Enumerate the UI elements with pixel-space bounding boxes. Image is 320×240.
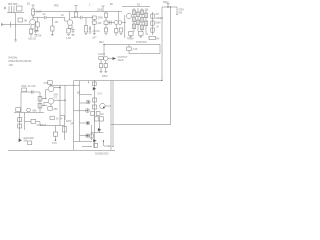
ground bbox=[140, 37, 143, 38]
tube V4 oscillator bbox=[104, 56, 108, 60]
wire cathode V2B bbox=[115, 25, 117, 29]
supply arrow B+ bbox=[102, 6, 105, 12]
ground bbox=[104, 72, 107, 73]
wire plate V6 bbox=[54, 99, 65, 101]
resistor R16 bbox=[132, 10, 135, 15]
wire col 1 bbox=[133, 8, 135, 32]
resistor R6 volume bbox=[51, 18, 53, 27]
wire plate V1A bbox=[32, 15, 34, 19]
bottom border wire bbox=[8, 149, 115, 151]
wire bbox=[74, 103, 87, 111]
svg-text:6.3V: 6.3V bbox=[52, 142, 57, 145]
wire bbox=[105, 68, 107, 72]
supply arrow B+ bbox=[32, 5, 35, 9]
diode D2 bbox=[93, 87, 96, 91]
text block notes bbox=[9, 56, 32, 67]
capacitor C7 bbox=[95, 117, 99, 121]
resistor R52 cathode bbox=[50, 104, 52, 107]
wire cathode V1A bbox=[31, 24, 35, 29]
resistor R25 bbox=[144, 21, 147, 26]
svg-text:270K: 270K bbox=[36, 36, 42, 38]
resistor R49 bbox=[151, 21, 154, 25]
ground bbox=[34, 35, 37, 36]
wire stubs bbox=[128, 45, 130, 54]
wire plate to rail bbox=[117, 12, 119, 21]
ground bbox=[120, 34, 123, 35]
svg-text:250K: 250K bbox=[98, 18, 104, 20]
svg-text:.02: .02 bbox=[145, 34, 149, 36]
wire bbox=[55, 126, 57, 132]
resistor R32 bbox=[22, 88, 27, 92]
wire reverb return bbox=[129, 53, 160, 55]
resistor R40 bbox=[90, 134, 94, 138]
svg-text:100: 100 bbox=[9, 63, 14, 67]
svg-text:.02: .02 bbox=[156, 27, 160, 29]
svg-text:GT: GT bbox=[54, 97, 58, 100]
svg-text:8Ω: 8Ω bbox=[77, 92, 80, 95]
lower wire bbox=[14, 112, 44, 114]
resistor R28 bbox=[127, 47, 132, 50]
ground bbox=[130, 37, 133, 38]
wire input bbox=[1, 24, 30, 26]
tube V3 bbox=[126, 13, 131, 18]
diode D1 bbox=[113, 57, 117, 60]
resistor R38 bbox=[92, 98, 96, 102]
wire to grids bbox=[42, 99, 47, 106]
svg-text:JACK: JACK bbox=[118, 59, 125, 62]
resistor R36 screen bbox=[48, 81, 52, 85]
wire cathode V1B bbox=[69, 25, 73, 29]
svg-text:5Y3: 5Y3 bbox=[98, 93, 103, 96]
svg-text:PRE: PRE bbox=[54, 6, 59, 8]
resistor R46 bbox=[53, 132, 57, 136]
resistor R37 bbox=[92, 82, 96, 86]
svg-text:12AX7: 12AX7 bbox=[98, 53, 106, 56]
svg-text:5V 2A: 5V 2A bbox=[56, 118, 63, 121]
svg-text:10K: 10K bbox=[98, 23, 103, 25]
wire cathode bbox=[105, 61, 107, 64]
wire grid jogs bbox=[42, 90, 48, 106]
ground bbox=[100, 72, 103, 73]
resistor R2 68k bbox=[17, 6, 23, 11]
resistor R50 bbox=[151, 28, 154, 32]
ground bbox=[93, 31, 96, 35]
wire tap bbox=[80, 94, 93, 96]
wire to ground bbox=[15, 13, 17, 40]
wire bbox=[91, 125, 104, 140]
wire col 3 bbox=[141, 8, 143, 32]
resistor R51 grid leak bbox=[37, 18, 39, 23]
power tube V5 bbox=[48, 86, 54, 92]
wire bbox=[55, 136, 57, 140]
resistor R26 bbox=[129, 32, 134, 36]
resistor R47 bbox=[63, 127, 67, 133]
resistor R27 bbox=[139, 32, 144, 36]
tube V1A bbox=[30, 19, 36, 25]
wire plate out bbox=[33, 15, 45, 18]
resistor R14 bbox=[104, 28, 107, 32]
ground bbox=[72, 34, 75, 35]
jack ring 3 bbox=[86, 121, 90, 125]
resistor R22 bbox=[140, 18, 143, 23]
capacitor C3 bypass bbox=[72, 29, 75, 34]
svg-text:SCHEM 5E3: SCHEM 5E3 bbox=[95, 153, 109, 156]
box B1 bbox=[149, 36, 156, 39]
supply node B+ bbox=[162, 4, 177, 8]
wire stub right bbox=[176, 7, 178, 15]
svg-text:B1: B1 bbox=[27, 3, 31, 6]
tube V2A bbox=[114, 21, 118, 25]
svg-text:REV: REV bbox=[99, 42, 104, 44]
resistor R33 bbox=[38, 97, 42, 102]
capacitor C6 bbox=[32, 90, 34, 93]
resistor R18 bbox=[132, 24, 135, 29]
PSU main wire bbox=[94, 80, 96, 148]
svg-text:SW: SW bbox=[178, 12, 183, 14]
svg-text:250K: 250K bbox=[155, 23, 161, 25]
resistor R1 68k bbox=[9, 6, 12, 13]
supply arrow B+ bbox=[75, 6, 78, 13]
resistor R15 bbox=[115, 29, 118, 33]
capacitor C1 bypass bbox=[34, 29, 37, 34]
wire right verticals bbox=[111, 80, 114, 150]
capacitor C4 coupling bbox=[78, 16, 93, 19]
svg-text:TREM: TREM bbox=[127, 38, 134, 40]
svg-text:GROUND: GROUND bbox=[24, 138, 35, 140]
resistor R39 bbox=[92, 105, 96, 109]
ground bbox=[51, 35, 54, 36]
resistor R34 bbox=[38, 104, 42, 109]
capacitor C2 coupling bbox=[45, 16, 47, 19]
wire bbox=[74, 141, 93, 143]
svg-text:.047: .047 bbox=[92, 38, 97, 40]
wire screen bus bbox=[50, 84, 80, 86]
ground bbox=[85, 33, 88, 34]
wire down bbox=[103, 45, 105, 57]
ground bbox=[67, 34, 70, 35]
svg-text:STBY: STBY bbox=[178, 10, 184, 12]
diode D4 bbox=[93, 139, 96, 142]
svg-text:FOOTSW: FOOTSW bbox=[136, 41, 147, 44]
wire bbox=[108, 58, 113, 60]
wire HT rail B bbox=[111, 7, 171, 125]
wires tone bbox=[93, 19, 101, 31]
svg-text:.02: .02 bbox=[42, 13, 46, 16]
svg-text:B2: B2 bbox=[110, 4, 114, 6]
svg-text:1.5K: 1.5K bbox=[66, 37, 71, 40]
jack ring 1 bbox=[86, 100, 90, 104]
resistor R31 bbox=[99, 64, 102, 68]
svg-text:465V: 465V bbox=[102, 75, 108, 78]
resistor R17 bbox=[132, 17, 135, 22]
resistor R13 grid bbox=[104, 21, 108, 24]
svg-text:3.3K: 3.3K bbox=[133, 48, 138, 51]
resistor R19 bbox=[136, 12, 139, 17]
resistor R44 bbox=[31, 119, 36, 123]
wire bbox=[64, 116, 66, 140]
resistor R21 bbox=[140, 10, 143, 15]
wire bbox=[46, 18, 67, 22]
wire HT rail A bbox=[74, 7, 163, 81]
resistor R42 bbox=[18, 118, 22, 122]
wire col 5 bbox=[152, 12, 154, 35]
capacitor C8 bbox=[99, 117, 103, 121]
capacitor C9 bbox=[89, 27, 90, 33]
jack sleeve bbox=[10, 22, 12, 28]
ground bbox=[115, 34, 118, 35]
capacitor C5 bbox=[119, 28, 123, 32]
svg-text:RADIAL: RADIAL bbox=[9, 56, 19, 60]
rail wire 3 bbox=[122, 6, 150, 8]
wires down bbox=[20, 113, 25, 143]
resistor R8 cathode bbox=[67, 29, 70, 34]
jack ring 2 bbox=[86, 109, 90, 113]
resistor R24 bbox=[144, 13, 147, 18]
resistor R41 bbox=[94, 143, 98, 147]
svg-text:PRECISION DRIVE: PRECISION DRIVE bbox=[9, 59, 32, 63]
component box bbox=[50, 116, 54, 119]
svg-text:56K: 56K bbox=[33, 110, 38, 112]
ground bbox=[30, 35, 33, 36]
svg-text:20: 20 bbox=[101, 113, 104, 116]
ground bbox=[36, 31, 39, 32]
tone stack R10 bbox=[92, 16, 96, 19]
resistor R20 bbox=[136, 20, 139, 25]
svg-text:.02: .02 bbox=[61, 15, 65, 17]
ground bbox=[14, 40, 17, 41]
resistor R48 bbox=[151, 14, 154, 18]
wire plate V1B bbox=[70, 12, 76, 20]
resistor R4 100k plate bbox=[31, 9, 34, 15]
phase inverter wire bbox=[21, 92, 40, 113]
wire bbox=[80, 122, 87, 124]
wire col 4 bbox=[145, 10, 147, 33]
svg-text:250: 250 bbox=[54, 108, 59, 111]
capacitor C10 link bbox=[108, 21, 114, 25]
wire bbox=[82, 146, 92, 148]
svg-text:1M: 1M bbox=[24, 20, 27, 23]
resistor R30 bbox=[104, 64, 107, 68]
wire bbox=[25, 121, 32, 123]
wire cathode V2A bbox=[105, 24, 107, 28]
svg-text:68K 68K: 68K 68K bbox=[8, 3, 18, 6]
wire bbox=[100, 60, 102, 72]
jack ring 4 bbox=[86, 134, 90, 138]
svg-text:.1: .1 bbox=[89, 5, 92, 7]
tube V1B bbox=[67, 20, 73, 26]
resistor R43 bbox=[18, 124, 22, 128]
wire bbox=[99, 121, 101, 133]
svg-text:33K: 33K bbox=[145, 10, 150, 12]
resistor R7 plate bbox=[74, 12, 77, 17]
power tube V6 bbox=[48, 98, 54, 104]
resistor R5 cathode bbox=[29, 29, 32, 34]
wire bbox=[80, 135, 86, 137]
wire bbox=[36, 122, 40, 126]
input jack J2 bbox=[5, 7, 6, 10]
diode D3 bbox=[98, 128, 101, 131]
wire out V2B bbox=[122, 15, 126, 38]
svg-text:470: 470 bbox=[44, 82, 49, 85]
OT primary wires bbox=[60, 85, 65, 125]
svg-text:FUSE: FUSE bbox=[105, 145, 112, 148]
OT secondary wires bbox=[74, 81, 89, 151]
resistor R29 bbox=[99, 57, 103, 60]
svg-text:100K: 100K bbox=[97, 9, 103, 11]
resistor R35 bbox=[16, 108, 21, 112]
resistor R45 bbox=[28, 141, 32, 145]
resistor R23 bbox=[140, 25, 143, 30]
ground bbox=[89, 32, 92, 33]
wire col 2 bbox=[137, 8, 139, 32]
lamp bbox=[27, 108, 31, 112]
wire reverb send top bbox=[104, 44, 160, 46]
svg-text:460V: 460V bbox=[163, 1, 169, 4]
resistor R9 grid bbox=[85, 18, 87, 26]
resistor R12 plate bbox=[105, 12, 107, 14]
svg-text:RV: RV bbox=[156, 39, 160, 41]
svg-text:1M: 1M bbox=[55, 21, 58, 24]
tube V2B bbox=[118, 21, 122, 25]
wire grid bus bbox=[7, 6, 24, 13]
svg-text:B2: B2 bbox=[137, 4, 141, 7]
wire plate V5 bbox=[54, 87, 60, 89]
rail wire bbox=[33, 11, 122, 13]
svg-text:SP: SP bbox=[71, 124, 75, 126]
resistor R3 1M bbox=[18, 18, 23, 22]
wire stub bbox=[103, 141, 105, 147]
wire reverb right bbox=[159, 45, 161, 54]
ground bbox=[105, 34, 108, 35]
input jack J1 bbox=[2, 23, 3, 26]
svg-text:OUTPUT: OUTPUT bbox=[37, 124, 47, 127]
svg-text:270K .01 10K: 270K .01 10K bbox=[21, 85, 36, 88]
wire long bbox=[40, 125, 65, 127]
diode D5 bbox=[19, 139, 22, 142]
wire bbox=[39, 92, 41, 113]
svg-text:INT.: INT. bbox=[155, 14, 159, 16]
tone stack R11 bbox=[92, 21, 96, 24]
rectifier tube V7 bbox=[100, 103, 105, 108]
svg-text:820 25: 820 25 bbox=[29, 38, 37, 41]
capacitor cluster bbox=[91, 112, 95, 116]
